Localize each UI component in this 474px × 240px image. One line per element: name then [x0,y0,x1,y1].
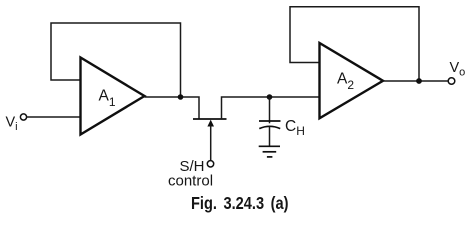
svg-text:Vi: Vi [6,114,18,133]
node capacitor junction [267,94,273,100]
svg-text:CH: CH [285,118,305,138]
wire A2 feedback loop [290,7,419,80]
wire gate control [210,126,212,161]
wire A2 output to Vo [383,80,448,82]
wire capacitor to ground [269,127,271,146]
node A2 output junction [416,78,422,84]
svg-text:Vo: Vo [450,60,466,79]
transistor gate arrowhead [207,120,214,127]
capacitor CH bottom plate [259,126,280,128]
terminal Vi [20,114,26,120]
ground [259,146,280,157]
op-amp A2 [320,43,384,118]
transistor switch channel [193,118,227,120]
node A1 output junction [178,94,184,100]
wire Vi input to A1 [27,116,81,118]
wire switch source to A2 input [222,97,320,119]
terminal Vo [448,78,455,85]
terminal S/H control [207,161,213,167]
svg-text:control: control [168,172,213,189]
op-amp A1 [81,58,145,135]
capacitor CH top plate [259,120,281,122]
svg-text:Fig. 3.24.3 (a): Fig. 3.24.3 (a) [191,193,289,213]
wire junction to capacitor [269,97,271,123]
wire A1 feedback loop [51,23,181,96]
wire A1 output to switch drain [145,97,200,119]
